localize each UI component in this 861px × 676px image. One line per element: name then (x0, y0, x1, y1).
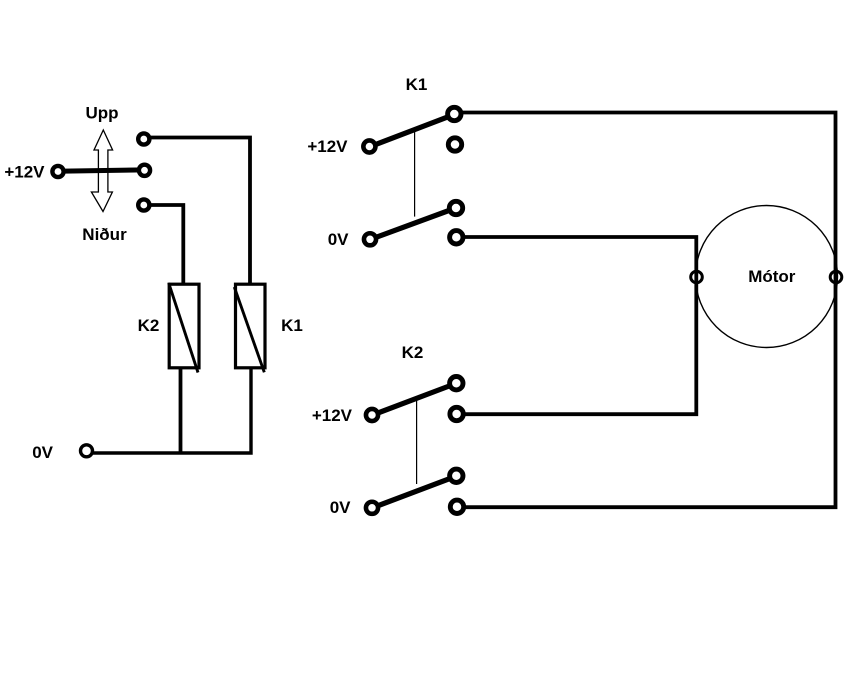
svg-text:K1: K1 (406, 75, 428, 94)
svg-text:+12V: +12V (307, 137, 348, 156)
svg-text:K1: K1 (281, 316, 303, 335)
svg-text:0V: 0V (328, 230, 349, 249)
svg-text:Mótor: Mótor (748, 267, 796, 286)
svg-text:Upp: Upp (85, 104, 118, 123)
svg-text:+12V: +12V (312, 406, 353, 425)
svg-text:Niður: Niður (82, 225, 127, 244)
svg-text:0V: 0V (32, 443, 53, 462)
svg-text:K2: K2 (138, 316, 160, 335)
svg-text:+12V: +12V (4, 163, 45, 182)
svg-text:0V: 0V (330, 498, 351, 517)
svg-text:K2: K2 (402, 343, 424, 362)
